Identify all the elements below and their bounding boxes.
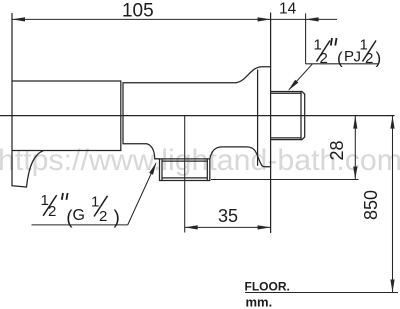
outlet thread inner lines — [162, 159, 207, 181]
flare top curve — [236, 67, 271, 83]
svg-text:2: 2 — [99, 208, 107, 225]
svg-text:14: 14 — [279, 1, 297, 18]
arrow 28 top — [353, 116, 357, 129]
svg-text:P: P — [344, 48, 354, 65]
svg-text:FLOOR.: FLOOR. — [245, 280, 290, 294]
body left edge / extension line — [11, 14, 13, 186]
svg-text:2: 2 — [320, 50, 328, 67]
nipple inner vertical — [300, 92, 302, 140]
floor line — [245, 292, 398, 294]
svg-text:2: 2 — [48, 203, 56, 220]
arrow 35 left — [185, 225, 198, 229]
arrow 14 outside — [306, 17, 319, 21]
G fraction 1 slash — [43, 195, 57, 216]
svg-text:): ) — [114, 207, 120, 228]
label 1/2"(PJ1/2) — [314, 36, 382, 67]
lever back curve — [27, 151, 44, 187]
svg-text:(: ( — [337, 49, 343, 68]
lever foot bottom — [12, 186, 27, 187]
svg-text:850: 850 — [361, 190, 381, 220]
svg-text:35: 35 — [218, 206, 238, 226]
centerline — [0, 115, 394, 117]
arrow 105 right — [258, 17, 271, 21]
svg-text:): ) — [376, 49, 382, 68]
arrow G leader — [149, 162, 156, 175]
G double prime — [62, 193, 68, 200]
extension line 35 left (outlet axis) — [184, 116, 186, 233]
extension line outlet bottom — [211, 179, 359, 181]
middle section top — [123, 82, 236, 84]
G label underline — [32, 224, 128, 226]
joint vertical left — [120, 81, 122, 151]
nipple thread line bottom — [271, 137, 301, 139]
middle section bottom — [123, 143, 147, 145]
G fraction 2 slash — [94, 196, 108, 217]
svg-text:mm.: mm. — [246, 295, 273, 309]
arrow 850 top — [390, 116, 394, 129]
PJ double prime — [331, 38, 337, 46]
PJ fraction 1 slash — [317, 41, 331, 62]
PJ leader — [289, 64, 313, 90]
dimension line 35 — [185, 226, 271, 228]
nipple thread line top — [271, 92, 301, 94]
fillet to outlet — [147, 144, 160, 159]
arrow PJ leader — [288, 80, 298, 91]
svg-text:105: 105 — [122, 1, 154, 22]
dimension line 850 — [392, 116, 394, 293]
nipple outline — [271, 92, 305, 140]
arrow 850 bottom — [390, 280, 394, 293]
dimension line 105/14 — [12, 18, 306, 20]
arrow 105 left — [12, 17, 25, 21]
outlet thread outer — [155, 159, 210, 181]
extension line x=305.6 — [305, 13, 307, 63]
dimension tail 14 — [306, 18, 337, 20]
arrow 35 right — [258, 225, 271, 229]
label 1/2"(G1/2) — [41, 192, 120, 228]
bump between outlet and flange — [210, 147, 271, 167]
arrow 28 bottom — [353, 167, 357, 180]
PJ label underline — [306, 63, 379, 65]
svg-text:G: G — [73, 207, 85, 224]
svg-text:2: 2 — [365, 50, 373, 67]
PJ fraction 2 slash — [363, 41, 377, 62]
dimension line 28 — [354, 116, 356, 180]
svg-text:28: 28 — [327, 140, 347, 160]
big cylinder top — [12, 80, 121, 82]
joint vertical right — [122, 83, 124, 144]
big cylinder bottom skirt — [12, 150, 121, 152]
G leader — [128, 163, 156, 225]
flange front face — [257, 70, 259, 165]
wall line / flange right face (extension to 35 dim) — [270, 13, 272, 233]
